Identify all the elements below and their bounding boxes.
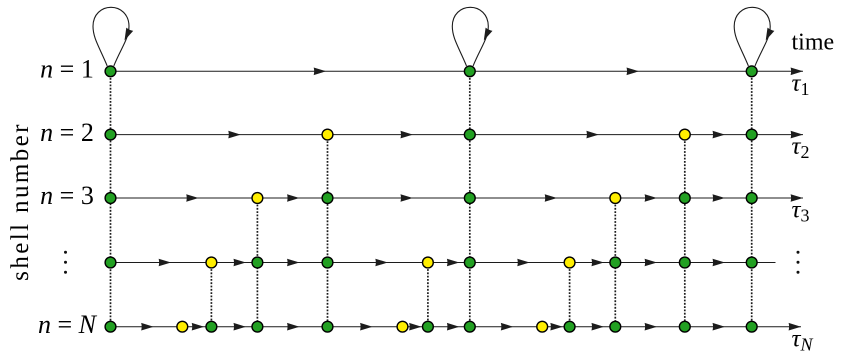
svg-text:time: time	[792, 30, 835, 56]
svg-text:n = N: n = N	[38, 310, 98, 339]
svg-text:n = 1: n = 1	[40, 55, 94, 84]
svg-text:shell number: shell number	[7, 122, 34, 281]
svg-text:n = 3: n = 3	[40, 181, 94, 210]
svg-text:n = 2: n = 2	[40, 118, 94, 147]
